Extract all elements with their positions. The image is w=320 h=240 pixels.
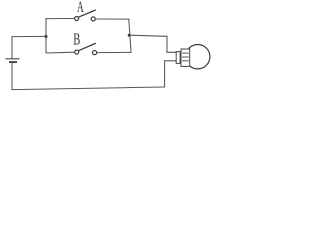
svg-text:B: B [73,30,80,49]
svg-text:A: A [77,0,84,16]
